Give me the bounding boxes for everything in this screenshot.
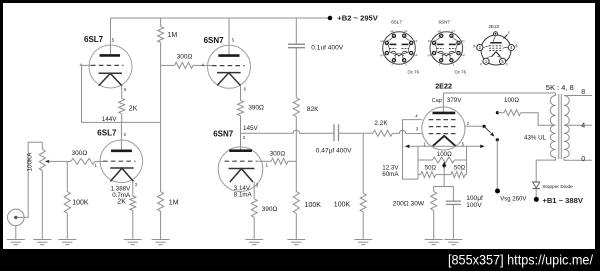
wire B+ to 1M bbox=[160, 18, 162, 27]
svg-text:Stopper Diode: Stopper Diode bbox=[542, 184, 573, 190]
ground under divider 100K bbox=[287, 214, 305, 245]
wire V1 cathode lead bbox=[121, 86, 123, 99]
pinout diagram 6SN7 internal cathodes bbox=[438, 51, 444, 52]
svg-text:60mA: 60mA bbox=[382, 171, 399, 178]
svg-text:Oc 76: Oc 76 bbox=[408, 70, 420, 75]
hum pot wiper bbox=[442, 162, 447, 166]
pinout diagram 2E22 internal grids bbox=[489, 45, 503, 47]
svg-text:100V: 100V bbox=[466, 202, 482, 209]
svg-text:390Ω: 390Ω bbox=[248, 105, 264, 112]
wire V5 top cap lead bbox=[442, 93, 444, 113]
transformer secondary winding upper bbox=[564, 96, 569, 126]
tube V3 filament triangle bbox=[217, 73, 240, 86]
wire V4 plate lead bbox=[240, 133, 242, 150]
pinout diagram 2E22 pin 2 bbox=[477, 44, 483, 50]
node +B2 terminal dot bbox=[328, 16, 333, 21]
svg-text:100K: 100K bbox=[334, 202, 351, 209]
wire V2 plate lead bbox=[120, 122, 122, 150]
pinout diagram 6SN7 base circle bbox=[430, 32, 463, 65]
transformer primary winding upper bbox=[550, 96, 555, 126]
ground under lower 390 bbox=[245, 217, 263, 244]
wire V4 grid lead bbox=[257, 160, 271, 162]
resistor R 300 ohm grid V4 bbox=[271, 158, 288, 164]
pinout diagram 2E22 internal filament bbox=[492, 52, 501, 57]
tube V1 plate bar bbox=[100, 54, 121, 57]
tube V3 grid dashes bbox=[212, 65, 245, 67]
input jack connector bbox=[8, 209, 25, 226]
pinout diagram 2E22 lead curves bbox=[483, 36, 508, 59]
svg-text:1M: 1M bbox=[168, 32, 178, 39]
tube V4 plate bar bbox=[229, 149, 252, 152]
svg-text:50Ω: 50Ω bbox=[425, 165, 437, 171]
pinout diagram 6SN7 internal grids bbox=[437, 48, 444, 50]
ground under input 100K bbox=[58, 213, 76, 245]
node switch lower dot bbox=[496, 138, 499, 141]
svg-text:g2: g2 bbox=[390, 29, 394, 33]
node Vsg dot bbox=[495, 189, 500, 194]
pinout diagram 6SN7 pins bbox=[432, 34, 460, 62]
wire V3 plate lead bbox=[228, 18, 230, 55]
svg-text:F: F bbox=[480, 63, 482, 67]
resistor R 300 ohm grid stopper V2 bbox=[71, 158, 95, 164]
pinout diagram 6SL7 pin labels bbox=[380, 29, 417, 67]
svg-text:100K: 100K bbox=[305, 202, 322, 209]
svg-text:2.2K: 2.2K bbox=[374, 120, 388, 127]
node 144V rail wire bbox=[82, 121, 161, 123]
svg-text:k1: k1 bbox=[414, 39, 418, 43]
tube V3 cathode bar bbox=[217, 72, 241, 74]
wire 50ohm rail left bbox=[418, 174, 421, 176]
wire 82K down through hop bbox=[295, 117, 297, 162]
pinout diagram 6SN7 internal plates bbox=[437, 43, 444, 45]
resistor R 100 ohm UL bbox=[504, 110, 521, 116]
svg-text:f: f bbox=[439, 63, 440, 67]
wire V4 cathode lead bbox=[253, 182, 255, 199]
tube V3 plate bar bbox=[218, 54, 239, 57]
pinout diagram 6SL7 pins bbox=[385, 34, 413, 62]
wire 300ohm to V3 grid bbox=[193, 64, 212, 66]
svg-text:100μf: 100μf bbox=[466, 195, 483, 202]
bottom black bar bbox=[0, 249, 600, 271]
pinout diagram 6SL7 internal plates bbox=[390, 43, 397, 45]
tube V2 filament triangle bbox=[110, 168, 133, 181]
svg-text:4: 4 bbox=[581, 123, 585, 130]
pinout diagram 6SL7 lead curves bbox=[387, 36, 411, 60]
wire 0.1uf to 82K bbox=[295, 48, 297, 98]
svg-text:100Ω: 100Ω bbox=[437, 151, 452, 158]
tube V5 grid g2 dashes bbox=[429, 126, 459, 128]
ground under 1M bbox=[152, 211, 170, 245]
svg-text:g1: g1 bbox=[428, 53, 432, 57]
wire V5 screen lead bbox=[465, 125, 484, 127]
svg-text:[855x357] https://upic.me/: [855x357] https://upic.me/ bbox=[448, 252, 593, 268]
svg-text:+B1 ~ 388V: +B1 ~ 388V bbox=[542, 196, 583, 205]
resistor R 1M lower bbox=[158, 192, 164, 212]
wire 100ohm to UL tap bbox=[521, 113, 556, 126]
svg-text:p1: p1 bbox=[452, 29, 456, 33]
pinout diagram 2E22 pin 4 bbox=[508, 44, 514, 50]
pinout diagram 2E22 base circle bbox=[481, 35, 511, 65]
svg-text:2E22: 2E22 bbox=[435, 81, 452, 90]
transformer core bbox=[558, 94, 560, 159]
svg-text:300Ω: 300Ω bbox=[177, 53, 193, 60]
resistor R 2.2K grid stopper bbox=[373, 130, 392, 136]
ground under jack bbox=[7, 231, 25, 245]
svg-text:6SL7: 6SL7 bbox=[84, 35, 104, 44]
svg-text:300Ω: 300Ω bbox=[270, 151, 286, 158]
wire jack sleeve bbox=[15, 226, 17, 231]
svg-text:300Ω: 300Ω bbox=[72, 150, 88, 157]
svg-text:k1: k1 bbox=[462, 39, 466, 43]
tube V4 cathode bar bbox=[229, 168, 255, 170]
resistor R 100K divider bbox=[293, 191, 299, 213]
resistor R 2K lower bbox=[130, 196, 136, 211]
tube V1 grid dashes bbox=[91, 64, 124, 66]
wire coupling line V4 plate to cap bbox=[241, 130, 335, 133]
wire filament left vertical bbox=[417, 146, 419, 179]
svg-text:144V: 144V bbox=[102, 116, 118, 123]
resistor R 200 ohm 30W bbox=[431, 192, 437, 211]
wire secondary tap 0 bbox=[564, 158, 592, 161]
svg-text:145V: 145V bbox=[243, 125, 259, 132]
wire center tap down bbox=[443, 175, 445, 187]
border frame left bbox=[0, 0, 3, 271]
wire V2 cathode lead bbox=[132, 181, 134, 196]
wire bias to 100uf bbox=[452, 187, 454, 202]
svg-text:g₁: g₁ bbox=[515, 43, 518, 47]
svg-text:0.1uf 400V: 0.1uf 400V bbox=[311, 45, 343, 52]
pinout diagram 2E22 top cap bbox=[494, 32, 498, 36]
svg-text:8: 8 bbox=[581, 89, 585, 96]
svg-text:p1: p1 bbox=[404, 29, 408, 33]
diode stopper bbox=[533, 182, 540, 188]
svg-text:g1: g1 bbox=[380, 53, 384, 57]
tube V1 filament triangle bbox=[99, 73, 122, 85]
wire secondary tap 8 bbox=[564, 95, 592, 97]
resistor potentiometer 100KA bbox=[39, 149, 45, 170]
tube V2 grid dashes bbox=[103, 160, 136, 162]
node switch upper dot bbox=[496, 111, 499, 114]
tube V1 cathode bar bbox=[99, 72, 123, 74]
border frame top bbox=[0, 0, 600, 3]
resistor R 2K upper bbox=[119, 98, 125, 113]
svg-text:100K: 100K bbox=[72, 200, 89, 207]
svg-text:Cap: Cap bbox=[432, 98, 442, 104]
svg-text:Oc 76: Oc 76 bbox=[455, 70, 467, 75]
ground under pot bbox=[33, 227, 51, 245]
tube V1 6SL7 upper envelope bbox=[89, 45, 132, 88]
svg-text:Vsg 260V: Vsg 260V bbox=[500, 197, 526, 203]
capacitor 0.1uf plates bbox=[288, 43, 305, 45]
wire filament right vertical bbox=[466, 146, 468, 174]
svg-text:200Ω 30W: 200Ω 30W bbox=[393, 201, 425, 208]
wire 1M chain middle bbox=[160, 43, 162, 192]
wire 2.2K to 2E22 grid with hop bbox=[392, 130, 421, 133]
tube V5 grid g3 dashes bbox=[429, 119, 459, 121]
resistor R 390 ohm lower bbox=[251, 199, 257, 217]
wire V1 plate lead bbox=[110, 18, 112, 55]
svg-text:6SN7: 6SN7 bbox=[213, 129, 234, 138]
wire secondary tap 4 bbox=[564, 124, 592, 126]
tube V2 cathode bar bbox=[110, 167, 134, 169]
wire 100ohm rail left bbox=[418, 159, 433, 161]
svg-text:F: F bbox=[508, 31, 510, 35]
resistor R 100K input bbox=[64, 192, 70, 214]
wire grid leak top bbox=[362, 133, 364, 193]
wire 50ohm center bbox=[436, 174, 451, 176]
svg-text:k2: k2 bbox=[381, 39, 385, 43]
transformer primary winding lower bbox=[550, 125, 555, 157]
border frame right bbox=[595, 0, 600, 271]
resistor R 50 ohm left bbox=[421, 172, 436, 178]
pinout diagram 6SL7 heater squiggle bbox=[395, 55, 404, 57]
pot 100KA wiper arrow bbox=[45, 160, 49, 163]
svg-text:8.1mA: 8.1mA bbox=[234, 192, 253, 199]
wire V1 grid lead bbox=[82, 65, 92, 122]
ground under 200 ohm bbox=[425, 210, 443, 244]
ground under grid leak 100K bbox=[354, 212, 372, 245]
resistor R 390 ohm upper bbox=[238, 100, 244, 115]
tube V5 plate bar bbox=[433, 112, 456, 115]
tube V5 filament triangle bbox=[433, 136, 456, 146]
wire cap to 2.2K bbox=[339, 132, 374, 134]
resistor R 100K grid leak bbox=[360, 193, 366, 211]
wire 300ohm to V2 grid bbox=[95, 160, 103, 162]
capacitor 0.47uf plates bbox=[333, 124, 335, 141]
tube V4 filament triangle bbox=[230, 169, 253, 182]
wire 100ohm UL left bbox=[497, 112, 504, 114]
arrow filament right bbox=[480, 145, 485, 149]
wire 1M node to 300ohm bbox=[161, 64, 175, 66]
node screen junction dot bbox=[483, 125, 486, 128]
svg-text:2K: 2K bbox=[129, 106, 138, 113]
svg-text:50Ω: 50Ω bbox=[454, 165, 466, 171]
transformer secondary winding lower bbox=[564, 125, 569, 157]
arrow filament left bbox=[405, 145, 410, 149]
tube V2 plate bar bbox=[111, 150, 132, 153]
svg-text:p2: p2 bbox=[462, 53, 466, 57]
wire wiper to grid stopper bbox=[67, 160, 71, 162]
svg-text:0.47μf 400V: 0.47μf 400V bbox=[316, 148, 352, 155]
wire wiper junction down bbox=[66, 161, 68, 191]
svg-text:2E22: 2E22 bbox=[489, 24, 500, 29]
wire B+ to 0.1uf bbox=[295, 18, 297, 44]
pinout diagram 6SN7 pin labels bbox=[428, 29, 465, 67]
svg-text:2K: 2K bbox=[117, 198, 126, 205]
svg-text:6SL7: 6SL7 bbox=[391, 20, 402, 25]
wire screen sense down bbox=[496, 140, 498, 191]
wire 50ohm rail right bbox=[465, 174, 467, 176]
svg-text:g2: g2 bbox=[438, 29, 442, 33]
ground under 2K bbox=[124, 211, 142, 245]
node +B2 rail wire bbox=[111, 17, 331, 19]
pinout diagram 2E22 pin 1 bbox=[483, 58, 489, 64]
tube V5 2E22 envelope bbox=[422, 107, 465, 150]
wire pot top lead bbox=[41, 142, 43, 149]
svg-text:6SN7: 6SN7 bbox=[439, 20, 451, 25]
wire divider node down bbox=[295, 161, 297, 191]
wire primary bottom lead bbox=[536, 158, 555, 183]
node +B1 terminal dot bbox=[534, 197, 539, 202]
pinout diagram 6SL7 internal grids bbox=[390, 48, 397, 50]
pinout diagram 2E22 pin 5 bbox=[500, 58, 506, 64]
resistor R 50 ohm right bbox=[451, 172, 465, 178]
wire bias to 200ohm bbox=[433, 187, 435, 192]
svg-text:f: f bbox=[453, 63, 454, 67]
svg-text:100KA: 100KA bbox=[27, 152, 34, 172]
svg-text:390Ω: 390Ω bbox=[262, 206, 278, 213]
resistor R 1M upper bbox=[158, 27, 164, 43]
pinout diagram 6SN7 lead curves bbox=[434, 36, 458, 60]
capacitor 100uf plates bbox=[446, 200, 461, 202]
wire pot bottom bbox=[41, 171, 43, 227]
tube V5 grid g1 dashes bbox=[429, 133, 459, 135]
svg-text:0: 0 bbox=[581, 156, 585, 163]
svg-text:6SL7: 6SL7 bbox=[97, 128, 117, 137]
resistor R 100 ohm hum pot bbox=[433, 157, 455, 163]
wire V3 cathode lead bbox=[240, 85, 242, 100]
wire 300ohm V4 to divider bbox=[288, 160, 296, 162]
svg-text:F: F bbox=[506, 63, 508, 67]
resistor R 82K bbox=[293, 98, 299, 117]
ground under 100uf bbox=[444, 204, 462, 244]
svg-text:6SN7: 6SN7 bbox=[204, 36, 225, 45]
wire 390 to coupling node bbox=[240, 116, 242, 134]
pinout diagram 6SL7 base circle bbox=[383, 32, 416, 65]
svg-text:+B2 ~ 295V: +B2 ~ 295V bbox=[337, 14, 378, 23]
wire bias rail bbox=[434, 186, 454, 188]
pinout diagram 6SL7 internal cathodes bbox=[391, 51, 397, 52]
switch screen arrow bbox=[484, 126, 491, 133]
wire 2K to rail bbox=[121, 114, 123, 123]
svg-text:100Ω: 100Ω bbox=[504, 97, 519, 104]
pinout diagram 2E22 internal plate bbox=[490, 42, 501, 44]
svg-text:1M: 1M bbox=[169, 199, 179, 206]
svg-text:82K: 82K bbox=[307, 106, 319, 113]
wire diode to B1 bbox=[535, 189, 537, 197]
svg-text:k2: k2 bbox=[428, 39, 432, 43]
wire jack tip bbox=[18, 142, 43, 217]
tube V4 6SN7 lower envelope bbox=[218, 147, 263, 192]
svg-text:p2: p2 bbox=[414, 53, 418, 57]
pinout diagram 2E22 F lead bbox=[504, 35, 508, 39]
wire filament line bbox=[407, 145, 483, 147]
tube V2 6SL7 lower envelope bbox=[100, 140, 143, 183]
svg-text:43% UL: 43% UL bbox=[524, 135, 547, 142]
resistor R 300 ohm grid V3 bbox=[175, 62, 193, 68]
svg-text:379V: 379V bbox=[447, 97, 462, 104]
tube V3 6SN7 upper envelope bbox=[208, 45, 251, 88]
wire V5 g3 lead bbox=[403, 120, 422, 180]
wire 100ohm rail right bbox=[455, 159, 467, 161]
wire plate to primary bbox=[443, 93, 555, 96]
tube V4 grid dashes bbox=[225, 160, 257, 162]
pinout diagram 6SN7 heater squiggle bbox=[442, 55, 451, 57]
svg-text:5K : 4, 8: 5K : 4, 8 bbox=[546, 83, 574, 92]
